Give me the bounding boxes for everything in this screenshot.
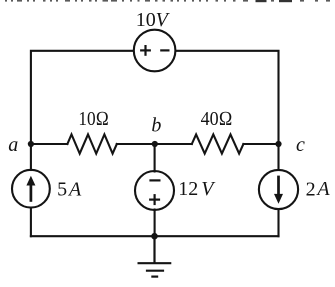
- svg-text:A: A: [67, 178, 82, 200]
- svg-text:c: c: [296, 134, 305, 156]
- node a dot: [28, 141, 34, 147]
- svg-text:5: 5: [57, 179, 67, 201]
- voltage source V1 10V circle: [134, 30, 176, 72]
- V2 minus sign: [149, 179, 160, 181]
- V1 plus sign: [140, 45, 151, 56]
- voltage source V2 12V circle: [135, 171, 174, 210]
- node b dot: [152, 141, 158, 147]
- wire node a to resistor R1 left lead: [31, 143, 68, 145]
- svg-text:2: 2: [306, 179, 316, 201]
- wire node c down to 2A source top: [277, 144, 279, 170]
- V2 plus sign: [149, 194, 160, 205]
- wire node b to resistor R2 left lead: [155, 143, 192, 145]
- ground: [138, 236, 172, 276]
- svg-text:a: a: [8, 134, 18, 156]
- wire 5A source bottom to bottom rail: [30, 208, 32, 236]
- wire bottom rail: [31, 235, 279, 237]
- wire 12V source bottom to bottom rail: [154, 210, 156, 237]
- resistor R1 10 ohm zigzag: [67, 134, 116, 153]
- svg-text:40Ω: 40Ω: [201, 108, 233, 130]
- svg-text:b: b: [151, 115, 161, 137]
- wire resistor R1 to node b: [117, 143, 155, 145]
- wire node a down to 5A source top: [30, 144, 32, 170]
- bottom junction dot: [151, 233, 158, 240]
- svg-text:12: 12: [178, 178, 198, 200]
- I2 arrow down: [274, 176, 283, 204]
- current source I1 5A circle: [12, 170, 50, 208]
- wire 2A source bottom to bottom rail: [277, 209, 279, 236]
- wire node b down to 12V source top: [154, 144, 156, 172]
- wire top-right: top rail to right rail down to node c: [176, 51, 279, 144]
- resistor R2 40 ohm zigzag: [192, 134, 244, 153]
- svg-text:10: 10: [136, 9, 156, 31]
- V1 minus sign: [160, 49, 169, 51]
- svg-text:10Ω: 10Ω: [78, 108, 109, 130]
- wire top-left: top rail to left rail down to node a: [31, 51, 134, 144]
- current source I2 2A circle: [259, 170, 298, 209]
- cropped text remnants at top edge: [5, 0, 330, 2]
- node c dot: [275, 141, 281, 147]
- wire resistor R2 to node c: [243, 143, 278, 145]
- I1 arrow up: [26, 176, 35, 202]
- svg-text:A: A: [315, 178, 330, 200]
